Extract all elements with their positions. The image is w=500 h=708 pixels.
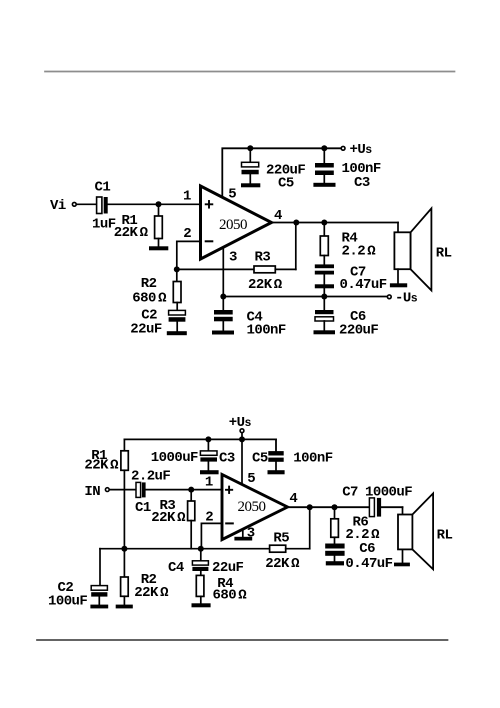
capacitor C7 Zobel — [323, 256, 325, 265]
ground below C2 — [90, 605, 108, 609]
wire pin 3 stub — [242, 529, 244, 536]
resistor R2 — [123, 549, 125, 577]
capacitor C5 — [275, 439, 277, 451]
svg-text:C5: C5 — [252, 451, 268, 467]
capacitor C6 electrolytic — [323, 297, 325, 311]
wire pin 3 down to -Vs rail — [222, 248, 224, 297]
node +Vs terminal — [341, 146, 345, 150]
svg-text:2050: 2050 — [219, 217, 247, 233]
node Vi input terminal — [72, 202, 76, 206]
wire pin 5 to +Vs rail — [222, 148, 340, 197]
resistor R4 — [196, 575, 204, 596]
resistor R1 — [123, 439, 125, 450]
wire feedback node to R3 — [177, 268, 254, 270]
ground below C2 — [167, 331, 187, 335]
wire output pin 4 to speaker — [272, 222, 399, 224]
wire +Vs terminal to rail — [241, 433, 243, 440]
svg-text:680Ω: 680Ω — [213, 587, 248, 603]
svg-text:22KΩ: 22KΩ — [265, 556, 300, 572]
node output junction feedback R3 — [293, 220, 299, 226]
svg-text:5: 5 — [228, 187, 236, 203]
speaker RL driver — [402, 507, 404, 514]
wire -Vs rail — [223, 296, 386, 298]
node rail junction pin5 — [239, 436, 245, 442]
svg-text:100nF: 100nF — [293, 451, 332, 467]
capacitor C5 electrolytic — [249, 148, 251, 162]
ground below C5 — [268, 470, 285, 474]
svg-text:2050: 2050 — [238, 499, 266, 515]
node rail junction C3 — [205, 436, 211, 442]
svg-text:4: 4 — [274, 208, 282, 224]
svg-text:22KΩ: 22KΩ — [134, 585, 169, 601]
bottom rule — [37, 639, 448, 641]
ground below C6 — [314, 330, 336, 334]
svg-text:C1: C1 — [135, 500, 151, 516]
svg-text:220uF: 220uF — [339, 323, 378, 339]
wire pin 2 to feedback bus — [201, 523, 222, 548]
node input junction R3 — [188, 487, 194, 493]
svg-text:IN: IN — [84, 484, 100, 500]
resistor R6 — [334, 507, 336, 519]
svg-text:C1: C1 — [95, 180, 111, 196]
wire riser to output node — [309, 507, 311, 549]
svg-text:RL: RL — [437, 528, 453, 544]
capacitor C2 electrolytic — [169, 310, 186, 315]
svg-text:22KΩ: 22KΩ — [84, 458, 119, 474]
wire riser to output node — [295, 223, 297, 270]
ground below speaker RL — [394, 563, 410, 567]
wire pin 2 to feedback node — [177, 241, 201, 269]
svg-text:1: 1 — [205, 475, 213, 491]
ground below C5 — [241, 183, 260, 187]
node input junction R1 — [156, 201, 162, 207]
svg-text:4: 4 — [289, 491, 297, 507]
svg-text:2: 2 — [183, 226, 191, 242]
node divider junction R2 — [121, 546, 127, 552]
svg-text:1uF: 1uF — [92, 217, 116, 233]
wire R5 to output riser — [286, 548, 310, 550]
wire speaker to ground — [402, 549, 404, 562]
capacitor C3 — [323, 148, 325, 163]
capacitor C6 Zobel — [325, 544, 344, 549]
svg-text:0.47uF: 0.47uF — [345, 556, 392, 572]
ground at pin 3 — [234, 537, 252, 541]
svg-text:1: 1 — [183, 188, 191, 204]
wire rail to pin 5 — [241, 439, 243, 484]
svg-text:+Us: +Us — [350, 142, 373, 158]
node output junction R5 — [307, 504, 313, 510]
op-amp U1 TDA2050 triangle — [201, 186, 272, 259]
svg-text:100nF: 100nF — [247, 323, 286, 339]
svg-text:100uF: 100uF — [48, 594, 87, 610]
ground below C3 — [200, 470, 219, 474]
svg-text:0.47uF: 0.47uF — [340, 277, 387, 293]
resistor R3 — [254, 266, 275, 273]
resistor R4 — [323, 223, 325, 237]
resistor R3 — [190, 490, 192, 501]
capacitor C4 — [222, 297, 224, 311]
svg-text:C3: C3 — [219, 450, 235, 466]
ground below R2 — [116, 605, 133, 609]
svg-text:3: 3 — [229, 249, 237, 265]
ground below C4 — [212, 331, 234, 335]
op-amp U2 plus input mark — [226, 489, 232, 491]
resistor R1 — [158, 204, 160, 216]
wire feedback bus — [100, 548, 270, 550]
svg-text:1000uF: 1000uF — [365, 485, 412, 501]
svg-text:2.2Ω: 2.2Ω — [342, 243, 377, 259]
wire +Vs rail — [124, 438, 276, 440]
node +Vs rail junction C5 — [247, 145, 253, 151]
wire speaker to ground — [397, 269, 399, 283]
node output junction R4 — [321, 220, 327, 226]
svg-text:R3: R3 — [255, 249, 271, 265]
ground below C3 — [313, 183, 335, 187]
svg-text:1000uF: 1000uF — [151, 450, 198, 466]
op-amp U1 minus input mark — [206, 240, 213, 242]
node -Vs rail junction C6 — [321, 294, 327, 300]
capacitor C2 electrolytic — [99, 549, 101, 586]
wire R1 to divider node — [123, 470, 125, 548]
op-amp U1 plus input mark — [206, 203, 213, 205]
svg-text:C5: C5 — [278, 176, 294, 192]
wire C7 to speaker — [381, 506, 402, 508]
wire IN to C1 — [110, 489, 137, 491]
svg-text:Vi: Vi — [50, 198, 66, 214]
svg-text:+Us: +Us — [229, 415, 252, 431]
svg-text:22uF: 22uF — [130, 322, 162, 338]
capacitor C7 electrolytic output — [369, 498, 374, 517]
op-amp U2 minus input mark — [226, 522, 233, 524]
capacitor C3 electrolytic — [207, 439, 209, 451]
wire C1 to pin 1 — [146, 489, 222, 491]
wire C1 to op-amp pin 1 — [108, 203, 201, 205]
svg-text:2.2uF: 2.2uF — [131, 468, 170, 484]
node -Vs terminal — [387, 295, 391, 299]
svg-text:22KΩ: 22KΩ — [114, 225, 149, 241]
svg-text:22KΩ: 22KΩ — [248, 277, 283, 293]
node +Vs rail junction C3 — [321, 145, 327, 151]
capacitor C1 electrolytic — [136, 482, 141, 497]
svg-text:C3: C3 — [354, 175, 370, 191]
wire Vi terminal to C1 — [77, 203, 96, 205]
resistor R2 — [176, 269, 178, 281]
node IN terminal — [105, 488, 109, 492]
wire output pin 4 to C7 — [288, 506, 370, 508]
speaker RL cone — [411, 208, 432, 290]
svg-text:C7: C7 — [342, 485, 358, 501]
resistor R5 — [270, 545, 286, 552]
ground below R4 — [192, 603, 211, 607]
svg-text:C6: C6 — [359, 541, 375, 557]
svg-text:680Ω: 680Ω — [132, 290, 167, 306]
wire R3 to output riser — [275, 268, 296, 270]
svg-text:RL: RL — [436, 245, 452, 261]
node feedback junction — [174, 266, 180, 272]
capacitor C4 electrolytic — [200, 549, 202, 561]
node +Vs terminal — [240, 429, 244, 433]
svg-text:22KΩ: 22KΩ — [151, 510, 186, 526]
node -Vs rail junction C4 — [220, 294, 226, 300]
ground below R1 — [149, 246, 168, 250]
svg-text:R5: R5 — [273, 530, 289, 546]
speaker RL driver — [397, 223, 399, 233]
svg-text:-Us: -Us — [395, 291, 418, 307]
svg-text:C4: C4 — [168, 560, 184, 576]
svg-text:5: 5 — [247, 471, 255, 487]
node output junction R6 — [332, 504, 338, 510]
ground below speaker RL — [390, 283, 407, 287]
top rule — [45, 71, 455, 73]
op-amp U2 TDA2050 triangle — [222, 475, 288, 540]
svg-text:22uF: 22uF — [212, 560, 244, 576]
node feedback junction pin2 C4 — [198, 546, 204, 552]
speaker RL cone — [412, 493, 433, 569]
ground below C6 — [326, 561, 344, 565]
capacitor C1 — [97, 197, 102, 214]
